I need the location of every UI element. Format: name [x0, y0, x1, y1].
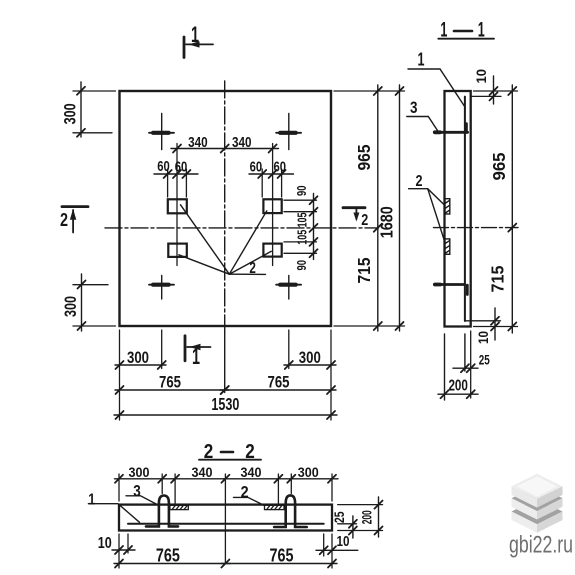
dim 200 2-2 — [375, 497, 383, 537]
svg-text:765: 765 — [270, 546, 294, 566]
svg-text:300: 300 — [61, 103, 80, 124]
dim 200 below section — [438, 334, 478, 400]
svg-text:1530: 1530 — [211, 394, 239, 414]
section 1-1 bottom edge extension — [474, 326, 518, 328]
svg-text:60: 60 — [157, 158, 170, 175]
svg-text:200: 200 — [448, 378, 468, 395]
svg-text:25: 25 — [479, 352, 490, 368]
svg-text:300: 300 — [129, 464, 150, 480]
section 2-2 top extension lines — [119, 474, 332, 564]
svg-text:765: 765 — [159, 373, 181, 392]
dim 1530 bottom — [114, 411, 337, 419]
dim 765 bottom R — [220, 386, 336, 394]
svg-text:2: 2 — [249, 260, 256, 277]
section 2-2 top dim line — [115, 475, 339, 483]
svg-text:105: 105 — [295, 230, 310, 245]
svg-text:gbi22.ru: gbi22.ru — [509, 532, 573, 559]
svg-text:2: 2 — [241, 482, 249, 501]
svg-text:765: 765 — [268, 373, 290, 392]
dim 10 2-2 left — [112, 546, 135, 554]
dim 10 top section — [490, 76, 498, 104]
section marker 1 bottom — [185, 336, 211, 361]
vertical centerline plan — [224, 81, 226, 393]
dim 300 top-left — [73, 82, 116, 137]
left column axis line — [176, 144, 178, 266]
svg-text:1: 1 — [418, 50, 425, 70]
plate outline plan view — [120, 91, 332, 326]
section 1-1 body — [445, 91, 471, 327]
svg-text:25: 25 — [331, 511, 347, 523]
svg-text:3: 3 — [410, 98, 418, 117]
section 1-1 title — [438, 19, 494, 42]
dim 10 bottom section — [491, 308, 499, 340]
lifting loop mark bottom-right — [276, 276, 301, 300]
section 1-1 bottom loop bracket — [435, 285, 468, 295]
svg-text:60: 60 — [250, 159, 263, 176]
section marker 2 right — [343, 208, 365, 222]
dim 25 below section — [453, 331, 478, 398]
svg-text:965: 965 — [354, 144, 374, 170]
section 1-1 inner bottom extension — [466, 320, 501, 322]
dim 765 2-2 left — [114, 560, 230, 568]
dim 1680 — [334, 85, 405, 331]
section 1-1 embedded plate upper hatched — [445, 199, 450, 214]
svg-text:105: 105 — [295, 213, 310, 228]
svg-text:200: 200 — [360, 510, 375, 524]
leader 3 section — [407, 117, 438, 131]
section 2-2 right extension lines — [338, 505, 383, 531]
lifting loop mark top-left — [149, 114, 174, 150]
svg-text:60: 60 — [274, 159, 287, 176]
section 2-2 right loop — [274, 495, 307, 527]
section 1-1 inner face line — [464, 97, 466, 321]
svg-text:1: 1 — [192, 344, 200, 369]
section marker 2 left — [62, 207, 88, 233]
section 2-2 left loop — [146, 496, 178, 527]
embedded plate rect upper-right — [263, 199, 281, 213]
middle slab — [512, 486, 563, 520]
section 1-1 inner top extension — [472, 95, 502, 97]
svg-text:60: 60 — [175, 159, 188, 176]
svg-text:300: 300 — [298, 464, 319, 480]
svg-text:965: 965 — [489, 152, 509, 180]
dim 965-715 right of section — [508, 85, 516, 333]
dim 25 2-2 — [349, 516, 357, 538]
section 1-1 centerline — [434, 227, 519, 229]
svg-text:300: 300 — [127, 348, 149, 367]
dim 965-715 between views — [374, 85, 382, 331]
dim 340-340 — [171, 145, 279, 153]
svg-text:340: 340 — [188, 134, 208, 151]
svg-text:300: 300 — [61, 296, 80, 317]
dim 300 bottom R — [284, 361, 336, 369]
svg-text:3: 3 — [133, 482, 141, 501]
leader 2 2-2 — [234, 497, 265, 505]
dim 60-60 left — [154, 170, 198, 178]
right column axis line — [272, 144, 274, 266]
top slab — [512, 474, 563, 508]
svg-text:340: 340 — [241, 464, 262, 480]
svg-text:715: 715 — [488, 265, 508, 292]
leader fan to embedded plates — [179, 205, 271, 275]
section 2-2 title — [199, 441, 261, 463]
svg-text:1680: 1680 — [376, 206, 396, 238]
svg-text:2: 2 — [361, 212, 368, 229]
dim 300 bottom-left — [73, 274, 116, 331]
leader 3 2-2 — [126, 496, 159, 506]
svg-text:340: 340 — [192, 464, 213, 480]
interior right dim extensions — [284, 200, 317, 253]
section 1-1 top loop bracket — [434, 124, 467, 133]
section 2-2 bottom extension lines — [119, 534, 332, 568]
svg-text:1: 1 — [191, 22, 199, 47]
horizontal centerline plan — [105, 227, 379, 229]
section marker 1 top — [184, 37, 213, 58]
svg-text:90: 90 — [294, 186, 309, 197]
embedded plate rect lower-left — [168, 244, 187, 257]
svg-text:715: 715 — [354, 257, 374, 283]
section 2-2 flange line — [128, 523, 324, 525]
bottom slab — [512, 499, 563, 533]
svg-text:340: 340 — [232, 134, 252, 151]
svg-text:300: 300 — [299, 348, 321, 367]
section 1-1 top edge extension — [474, 90, 518, 92]
lifting loop mark bottom-left — [149, 276, 174, 300]
dim 300 bottom L — [115, 361, 166, 369]
edge extension lines above upper rects — [168, 169, 282, 197]
leader 1 2-2 — [88, 504, 139, 523]
interior right dim line 90-105-105-90 — [310, 194, 318, 260]
svg-text:90: 90 — [294, 260, 309, 271]
dim 60-60 right — [249, 170, 294, 178]
svg-text:2: 2 — [416, 173, 423, 190]
leader 2 section — [409, 189, 445, 242]
embedded plate rect upper-left — [168, 199, 187, 213]
svg-text:10: 10 — [98, 535, 112, 552]
svg-text:2: 2 — [60, 210, 68, 230]
svg-text:10: 10 — [475, 331, 491, 344]
svg-text:10: 10 — [473, 69, 489, 84]
svg-text:1: 1 — [88, 492, 95, 509]
embedded plate rect lower-right — [263, 244, 281, 257]
leader 1 section — [408, 69, 465, 108]
dim 10 2-2 right — [316, 546, 358, 554]
dim 765 bottom L — [115, 386, 229, 394]
section 2-2 left hatched plate — [170, 505, 188, 509]
svg-text:765: 765 — [156, 546, 180, 566]
lifting loop mark top-right — [276, 114, 301, 150]
dim 765 2-2 right — [221, 560, 337, 568]
svg-text:10: 10 — [337, 533, 350, 550]
section 2-2 body — [119, 505, 332, 531]
section 1-1 embedded plate lower hatched — [445, 239, 450, 254]
bottom extension lines — [120, 330, 332, 420]
logo gbi22.ru slabs — [512, 474, 563, 533]
section 2-2 right hatched plate — [265, 505, 285, 509]
